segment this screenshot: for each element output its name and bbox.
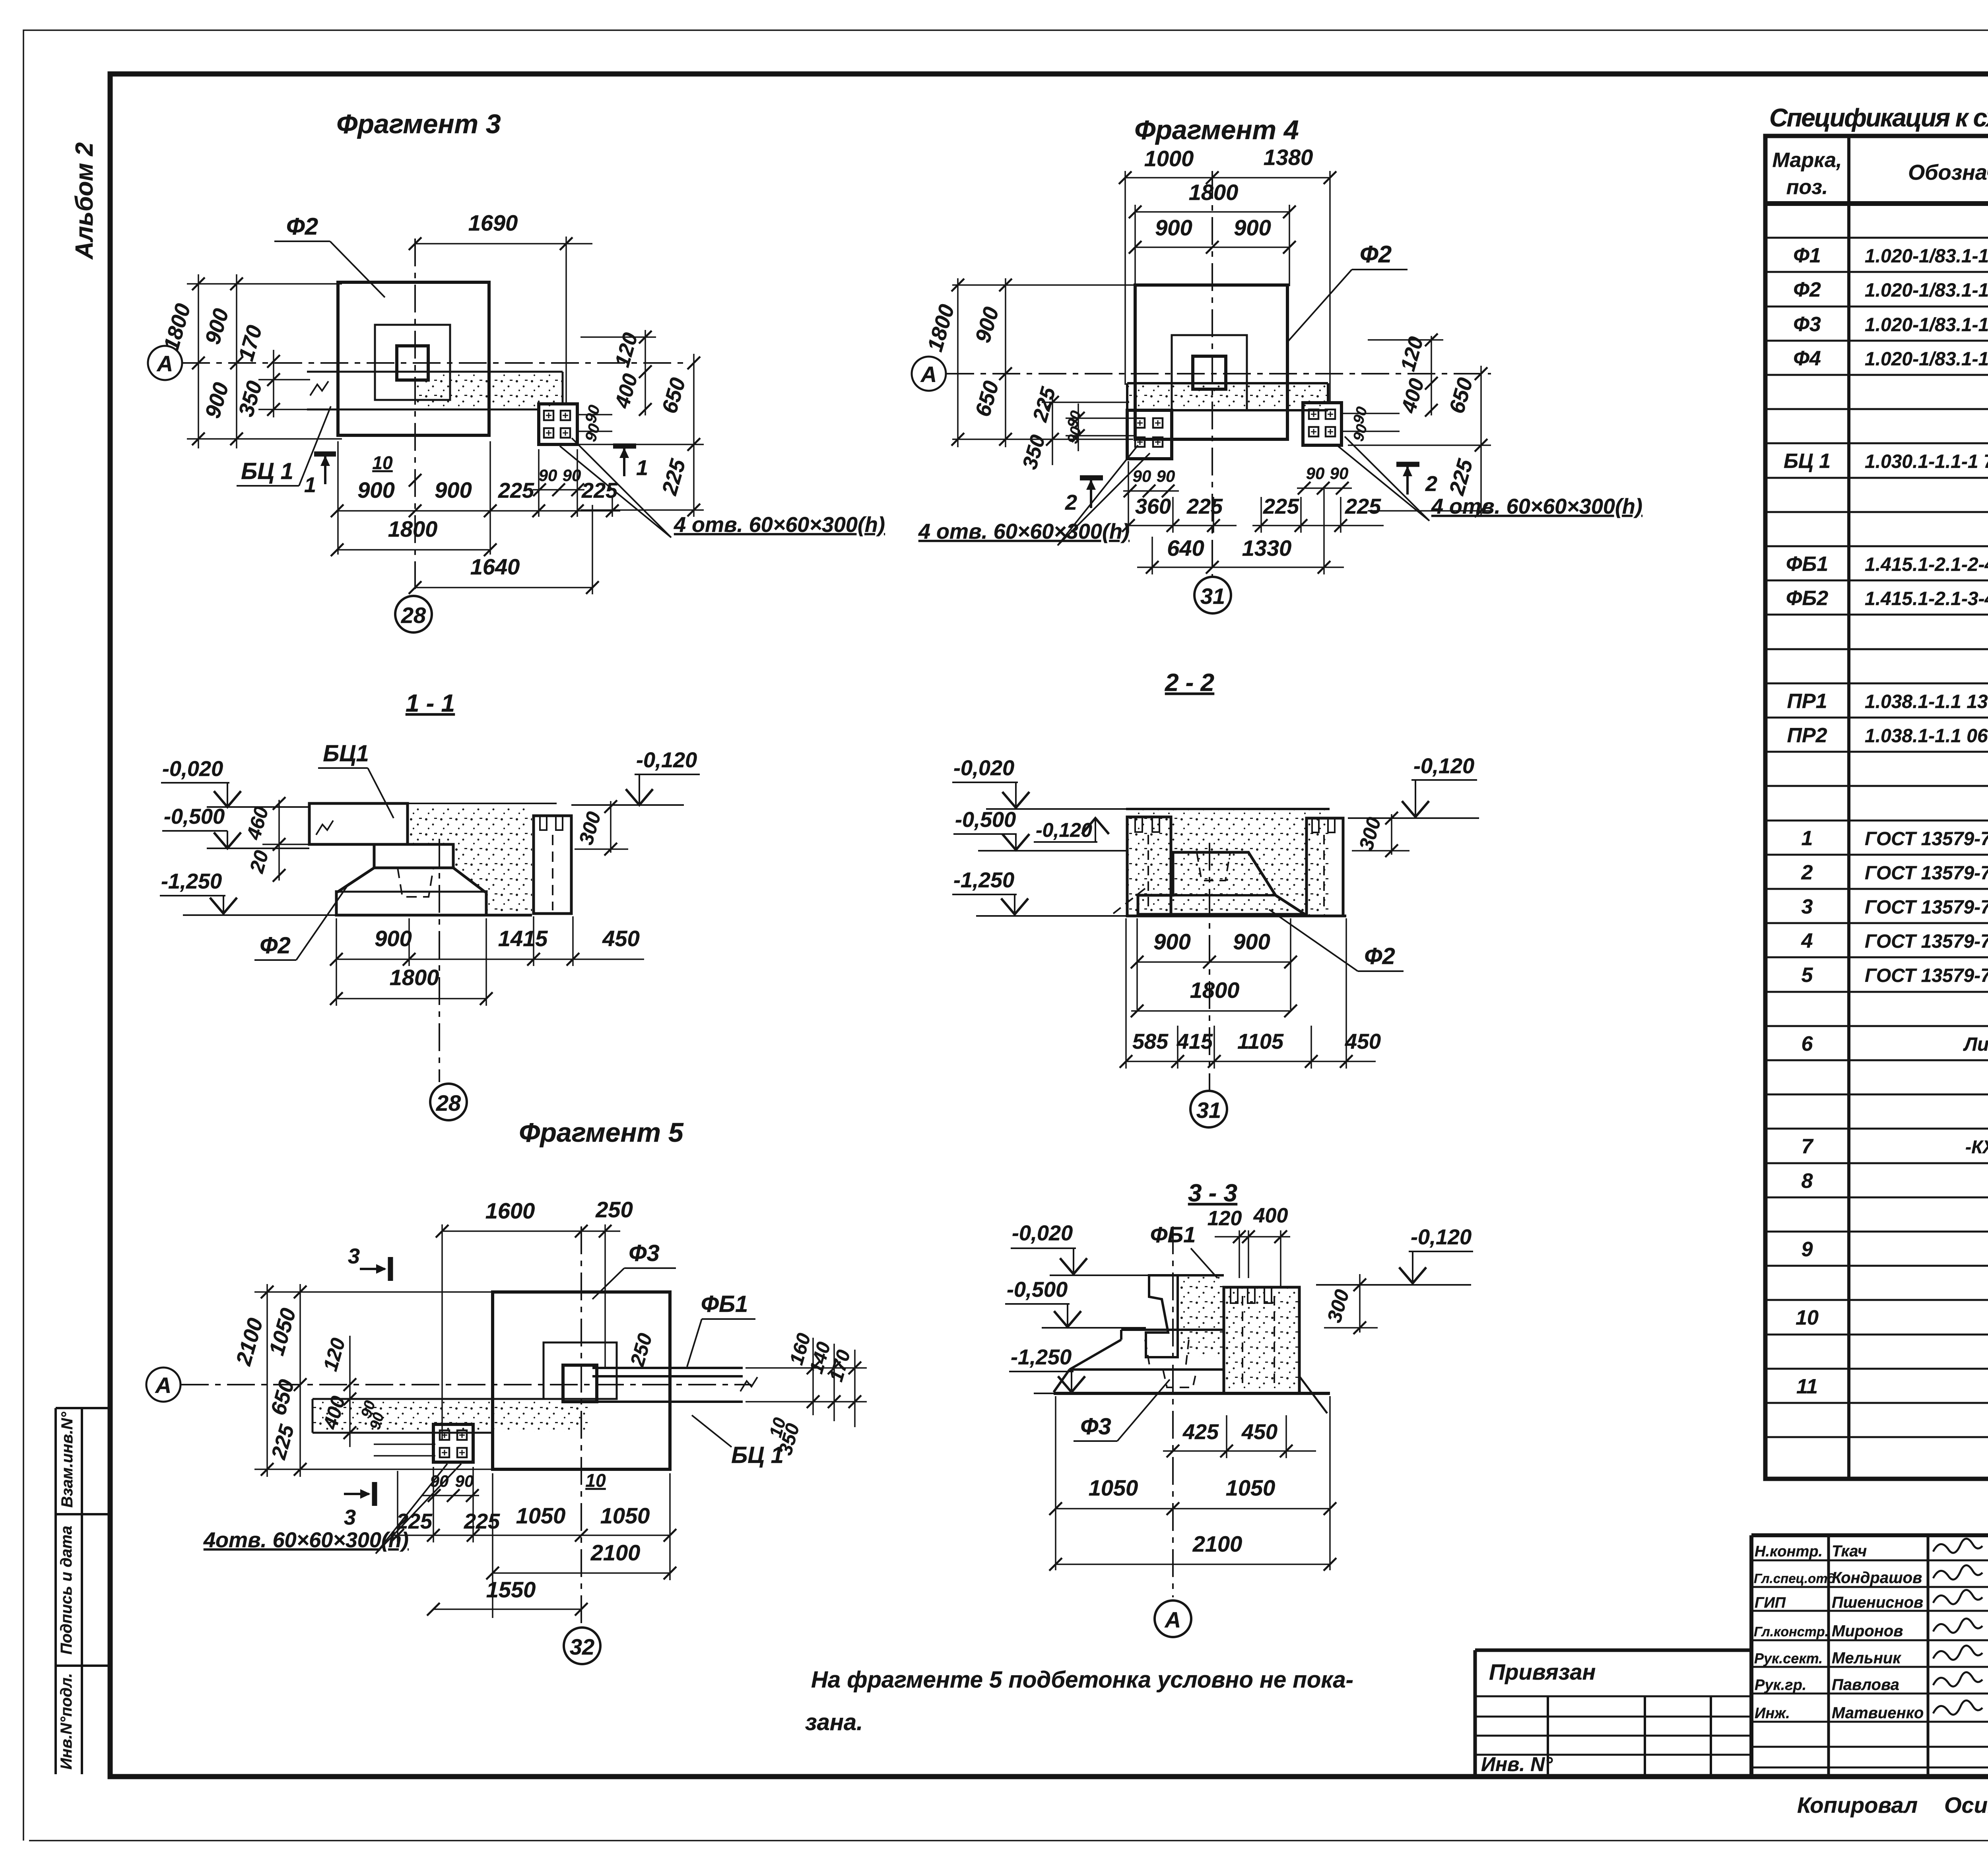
svg-text:А: А bbox=[155, 1373, 171, 1398]
fragment 3: bottom dim 1800 bbox=[337, 549, 490, 551]
section 1-1: stipple concrete fill bbox=[408, 807, 532, 913]
fragment 3: foundation Ф2 middle square bbox=[375, 325, 450, 400]
fragment 3: horizontal axis А bbox=[182, 362, 688, 364]
svg-text:3: 3 bbox=[348, 1244, 360, 1268]
svg-text:Ф4: Ф4 bbox=[1793, 347, 1821, 370]
svg-text:450: 450 bbox=[602, 926, 639, 951]
section 3-3: wall block ФБС bbox=[1224, 1287, 1299, 1393]
svg-text:ГОСТ 13579-78: ГОСТ 13579-78 bbox=[1865, 828, 1988, 850]
section 3-3: foundation Ф3 steps bbox=[1054, 1330, 1224, 1392]
fragment 3: column stub square bbox=[397, 346, 428, 380]
svg-text:Спецификация к схеме расположе: Спецификация к схеме расположения элемен… bbox=[1769, 103, 1988, 132]
svg-text:Рук.гр.: Рук.гр. bbox=[1755, 1677, 1806, 1694]
spec table column lines bbox=[1849, 136, 1988, 1479]
svg-text:А: А bbox=[920, 362, 937, 387]
svg-text:-1,250: -1,250 bbox=[953, 868, 1014, 892]
section 1-1: beam БЦ1 bbox=[309, 803, 408, 844]
svg-text:Подпись и дата: Подпись и дата bbox=[58, 1526, 75, 1655]
svg-text:Осина: Осина bbox=[1944, 1792, 1988, 1818]
svg-text:225: 225 bbox=[498, 479, 534, 502]
fragment 4: concrete stipple band bbox=[1128, 384, 1327, 409]
svg-text:2: 2 bbox=[1801, 861, 1813, 884]
svg-text:1.020-1/83.1-1 3.0.0-04: 1.020-1/83.1-1 3.0.0-04 bbox=[1865, 314, 1988, 336]
section 1-1: top ground line bbox=[309, 803, 557, 804]
section 3-3: beam ФБ1 tee profile bbox=[1146, 1275, 1178, 1357]
svg-text:ФБ2: ФБ2 bbox=[1786, 587, 1828, 610]
svg-text:90: 90 bbox=[563, 466, 581, 485]
svg-text:Лист 3: Лист 3 bbox=[1963, 1034, 1988, 1055]
svg-text:1105: 1105 bbox=[1237, 1030, 1284, 1053]
svg-text:10: 10 bbox=[1796, 1306, 1819, 1329]
svg-text:Марка,: Марка, bbox=[1773, 149, 1842, 172]
svg-text:90: 90 bbox=[1133, 467, 1151, 485]
section 3-3: hidden socket dashed bbox=[1163, 1370, 1197, 1387]
svg-text:10: 10 bbox=[372, 452, 393, 473]
section 3-3: dim 300 right bbox=[1324, 1274, 1378, 1333]
fragment 3: beam break mark bbox=[310, 381, 328, 396]
svg-text:БЦ 1: БЦ 1 bbox=[1784, 450, 1831, 473]
fragment 5: vertical axis 32 bbox=[580, 1226, 582, 1625]
svg-text:3: 3 bbox=[1802, 895, 1813, 918]
svg-text:4 отв. 60×60×300(h): 4 отв. 60×60×300(h) bbox=[918, 520, 1130, 543]
section 2-2: dim 300 right bbox=[1352, 814, 1409, 855]
svg-text:Ф2: Ф2 bbox=[260, 933, 291, 958]
svg-text:1800: 1800 bbox=[1189, 180, 1239, 205]
fragment 4: left dimension lines bbox=[952, 278, 1137, 465]
svg-text:4 отв. 60×60×300(h): 4 отв. 60×60×300(h) bbox=[674, 513, 885, 537]
svg-text:БЦ 1: БЦ 1 bbox=[241, 458, 293, 484]
svg-text:1600: 1600 bbox=[485, 1198, 535, 1223]
svg-text:225: 225 bbox=[464, 1509, 500, 1533]
svg-text:Ф3: Ф3 bbox=[1793, 313, 1821, 336]
section 3-3: block corner slant bbox=[1299, 1376, 1327, 1413]
svg-text:1.020-1/83.1-1 1.0.0: 1.020-1/83.1-1 1.0.0 bbox=[1865, 349, 1988, 370]
svg-text:5: 5 bbox=[1802, 964, 1813, 987]
svg-text:Фрагмент 4: Фрагмент 4 bbox=[1134, 115, 1299, 145]
section 2-2: bottom line bbox=[1126, 915, 1346, 918]
svg-text:2: 2 bbox=[1425, 472, 1437, 496]
section 1-1: hidden socket dashed bbox=[398, 868, 433, 897]
section 1-1: bottom line bbox=[336, 914, 532, 917]
svg-text:Ф2: Ф2 bbox=[286, 213, 318, 240]
svg-text:900: 900 bbox=[1153, 929, 1190, 954]
fragment 4: bottom dim 640 1330 bbox=[1137, 489, 1344, 574]
svg-text:Обозначение: Обозначение bbox=[1908, 161, 1988, 184]
svg-text:90: 90 bbox=[455, 1472, 474, 1490]
fragment 4: beam lines below band bbox=[1172, 410, 1287, 439]
fragment 5: horizontal axis А bbox=[181, 1384, 751, 1385]
fragment 4: right dimension lines bbox=[1343, 336, 1491, 517]
section 1-1: dim 300 bbox=[575, 801, 628, 853]
fragment 4: column stub square bbox=[1193, 356, 1226, 389]
fragment 5: foundation Ф3 outer square bbox=[493, 1292, 670, 1469]
svg-text:Павлова: Павлова bbox=[1832, 1676, 1899, 1694]
svg-text:Копировал: Копировал bbox=[1797, 1792, 1918, 1818]
svg-text:А: А bbox=[156, 351, 173, 376]
svg-text:1.020-1/83.1-1 2.00: 1.020-1/83.1-1 2.00 bbox=[1865, 246, 1988, 267]
svg-text:-0,020: -0,020 bbox=[162, 757, 223, 781]
fragment 3: concrete stipple band bbox=[416, 372, 563, 409]
svg-text:1800: 1800 bbox=[1190, 978, 1240, 1003]
fragment 4: right anchor block bbox=[1303, 403, 1342, 445]
svg-text:Кондрашов: Кондрашов bbox=[1832, 1569, 1922, 1587]
bottom thin sheet border bbox=[29, 1840, 1988, 1841]
fragment 5: concrete stipple band bbox=[313, 1400, 588, 1432]
fragment 4: axis circle 31 bbox=[1194, 577, 1231, 613]
svg-text:450: 450 bbox=[1241, 1420, 1277, 1444]
svg-text:1800: 1800 bbox=[390, 965, 439, 990]
fragment 3: left dimension lines bbox=[187, 274, 342, 448]
svg-text:31: 31 bbox=[1196, 1098, 1221, 1123]
section 2-2: hidden socket dashed bbox=[1197, 852, 1230, 881]
svg-text:1.020-1/83.1-1 2.0.0-04: 1.020-1/83.1-1 2.0.0-04 bbox=[1865, 280, 1988, 301]
svg-text:Фрагмент 5: Фрагмент 5 bbox=[519, 1117, 684, 1148]
section 2-2: left wall block bbox=[1127, 817, 1171, 916]
svg-text:2100: 2100 bbox=[590, 1540, 641, 1565]
title block: signature squiggles bbox=[1933, 1538, 1982, 1553]
svg-text:Ф1: Ф1 bbox=[1793, 244, 1821, 267]
svg-text:ГОСТ 13579-78: ГОСТ 13579-78 bbox=[1865, 863, 1988, 884]
section 1-1: right block ФБС bbox=[534, 816, 571, 914]
svg-text:425: 425 bbox=[1182, 1420, 1219, 1444]
svg-text:Привязан: Привязан bbox=[1489, 1659, 1596, 1684]
fragment 5: bottom dim 2100 bbox=[493, 1572, 670, 1574]
svg-text:10: 10 bbox=[585, 1470, 606, 1491]
svg-text:Гл.спец.отд: Гл.спец.отд bbox=[1754, 1571, 1836, 1586]
fragment 4: bottom dim 360 225 bbox=[1128, 461, 1237, 533]
svg-text:Ф3: Ф3 bbox=[1080, 1414, 1111, 1439]
svg-text:1.030.1-1.1-1 78-05: 1.030.1-1.1-1 78-05 bbox=[1865, 451, 1988, 472]
svg-text:-0,120: -0,120 bbox=[1413, 754, 1474, 778]
svg-text:1.038.1-1.1 130000-01: 1.038.1-1.1 130000-01 bbox=[1865, 691, 1988, 712]
svg-text:32: 32 bbox=[570, 1634, 594, 1659]
section 2-2: bottom dims 900 900 bbox=[1137, 918, 1291, 1010]
svg-text:1330: 1330 bbox=[1242, 535, 1292, 561]
svg-text:90: 90 bbox=[1306, 464, 1325, 483]
section 2-2: axis and circle 31 bbox=[1209, 843, 1210, 1090]
fragment 4: horizontal axis А bbox=[946, 373, 1491, 374]
svg-text:1415: 1415 bbox=[498, 926, 548, 951]
svg-text:250: 250 bbox=[595, 1197, 633, 1222]
section 3-3: beam foot block bbox=[1145, 1333, 1147, 1357]
svg-text:-КЖ2и- 00.00.41: -КЖ2и- 00.00.41 bbox=[1965, 1137, 1988, 1157]
svg-text:3: 3 bbox=[344, 1505, 356, 1529]
fragment 3: anchor block bbox=[539, 404, 577, 444]
fragment 5: band outlines bbox=[313, 1399, 588, 1433]
svg-text:-0,500: -0,500 bbox=[955, 808, 1016, 832]
svg-text:11: 11 bbox=[1796, 1375, 1818, 1398]
svg-text:9: 9 bbox=[1802, 1238, 1813, 1261]
fragment 4: dim 900 900 bbox=[1135, 246, 1289, 248]
svg-text:7: 7 bbox=[1802, 1135, 1814, 1158]
svg-text:900: 900 bbox=[357, 477, 394, 502]
svg-text:1: 1 bbox=[304, 473, 316, 497]
svg-text:1.415.1-2.1-3-45: 1.415.1-2.1-3-45 bbox=[1865, 588, 1988, 609]
svg-text:ПР1: ПР1 bbox=[1787, 690, 1827, 713]
svg-text:-0,020: -0,020 bbox=[953, 756, 1014, 780]
svg-text:585: 585 bbox=[1132, 1030, 1169, 1053]
svg-text:2100: 2100 bbox=[1192, 1531, 1242, 1556]
fragment 3: vertical axis 28 bbox=[414, 239, 416, 595]
fragment 3: axis circle А bbox=[148, 346, 182, 380]
svg-text:1050: 1050 bbox=[1089, 1475, 1138, 1500]
svg-text:900: 900 bbox=[375, 926, 412, 951]
svg-text:3 - 3: 3 - 3 bbox=[1188, 1179, 1237, 1207]
section 3-3: axis and circle А bbox=[1172, 1226, 1174, 1597]
svg-text:ГОСТ 13579-78: ГОСТ 13579-78 bbox=[1865, 931, 1988, 952]
svg-text:Фрагмент 3: Фрагмент 3 bbox=[336, 109, 501, 139]
fragment 4: top dim 1000 1380 bbox=[1125, 171, 1330, 402]
svg-text:ПР2: ПР2 bbox=[1787, 724, 1827, 747]
fragment 5: axis circle 32 bbox=[564, 1628, 600, 1664]
svg-text:1690: 1690 bbox=[468, 210, 518, 235]
fragment 4: left anchor block bbox=[1127, 410, 1172, 459]
fragment 5: bottom dim 1550 bbox=[433, 1608, 581, 1610]
svg-text:Альбом 2: Альбом 2 bbox=[71, 142, 98, 260]
svg-text:Инв.N°подл.: Инв.N°подл. bbox=[58, 1673, 75, 1770]
fragment 4: band outlines bbox=[1127, 383, 1328, 410]
section 3-3: bottom dim 2100 bbox=[1056, 1564, 1330, 1565]
svg-text:1: 1 bbox=[636, 456, 648, 480]
svg-text:640: 640 bbox=[1167, 535, 1204, 561]
left stamp column boxes bbox=[56, 1408, 110, 1774]
svg-text:8: 8 bbox=[1802, 1170, 1813, 1193]
section 2-2: foundation Ф2 white shape bbox=[1138, 852, 1305, 914]
section 2-2: top line bbox=[1126, 808, 1330, 810]
svg-text:900: 900 bbox=[1155, 215, 1192, 240]
svg-text:1.415.1-2.1-2-43: 1.415.1-2.1-2-43 bbox=[1865, 554, 1988, 575]
svg-text:ГОСТ 13579-78: ГОСТ 13579-78 bbox=[1865, 965, 1988, 986]
svg-text:90: 90 bbox=[1157, 467, 1175, 485]
svg-text:1380: 1380 bbox=[1264, 145, 1313, 170]
svg-text:28: 28 bbox=[401, 603, 426, 628]
svg-text:225: 225 bbox=[1345, 495, 1381, 518]
svg-text:1050: 1050 bbox=[516, 1503, 566, 1528]
fragment 5: top dim 1600 250 bbox=[442, 1224, 620, 1439]
fragment 5: foundation Ф3 middle rect bbox=[544, 1342, 617, 1399]
svg-text:ГИП: ГИП bbox=[1755, 1595, 1786, 1611]
title block: signature table row lines bbox=[1751, 1560, 1988, 1767]
fragment 4: dim 1800 bbox=[1135, 205, 1289, 286]
svg-text:зана.: зана. bbox=[805, 1709, 863, 1735]
section 1-1: dim 460/20 bbox=[262, 800, 314, 881]
svg-text:28: 28 bbox=[436, 1090, 461, 1115]
fragment 4: section mark 2 left bbox=[1080, 475, 1103, 481]
fragment 5: anchor block bbox=[433, 1424, 473, 1462]
section 2-2: right wall block bbox=[1307, 818, 1343, 916]
fragment 3: bottom dim row 900 900 225 225 bbox=[337, 441, 620, 555]
fragment 5: bottom dim row 225 225 1050 1050 bbox=[394, 1467, 670, 1618]
svg-text:Рук.сект.: Рук.сект. bbox=[1754, 1650, 1823, 1666]
svg-text:А: А bbox=[1164, 1607, 1181, 1632]
fragment 5: beam ФБ1 bbox=[592, 1368, 743, 1402]
section 3-3: foundation bottom bbox=[1054, 1392, 1330, 1395]
svg-text:Взам.инв.N°: Взам.инв.N° bbox=[58, 1412, 76, 1508]
fragment 3: right dimension lines bbox=[569, 330, 704, 517]
svg-text:900: 900 bbox=[435, 477, 472, 502]
svg-text:1640: 1640 bbox=[470, 554, 520, 579]
svg-text:БЦ1: БЦ1 bbox=[323, 741, 369, 766]
fragment 5: axis circle А bbox=[146, 1368, 181, 1402]
svg-text:6: 6 bbox=[1802, 1032, 1813, 1055]
svg-text:Ф2: Ф2 bbox=[1793, 278, 1821, 301]
svg-text:4отв. 60×60×300(h): 4отв. 60×60×300(h) bbox=[203, 1528, 409, 1552]
svg-text:900: 900 bbox=[1234, 215, 1271, 240]
svg-text:Матвиенко: Матвиенко bbox=[1832, 1704, 1924, 1722]
svg-text:4 отв. 60×60×300(h): 4 отв. 60×60×300(h) bbox=[1431, 495, 1642, 518]
svg-text:360: 360 bbox=[1135, 495, 1171, 518]
svg-text:225: 225 bbox=[1186, 495, 1223, 518]
svg-text:90: 90 bbox=[539, 466, 557, 485]
fragment 3: foundation Ф2 outer square bbox=[338, 282, 489, 435]
svg-text:90: 90 bbox=[1330, 464, 1349, 483]
section 3-3: bottom dims 425 450 bbox=[1163, 1415, 1316, 1458]
svg-text:Ф3: Ф3 bbox=[629, 1240, 660, 1266]
svg-text:Пшениснов: Пшениснов bbox=[1832, 1594, 1923, 1611]
svg-text:-0,020: -0,020 bbox=[1012, 1221, 1073, 1245]
fragment 4: foundation Ф2 outer square bbox=[1135, 285, 1287, 439]
svg-text:Мельник: Мельник bbox=[1832, 1649, 1901, 1667]
section 2-2: stipple fill full area bbox=[1128, 810, 1328, 915]
svg-text:-1,250: -1,250 bbox=[161, 869, 222, 893]
svg-text:Ф2: Ф2 bbox=[1360, 241, 1392, 268]
svg-text:На фрагменте 5 подбетонка у: На фрагменте 5 подбетонка условно не пок… bbox=[811, 1667, 1353, 1693]
svg-text:415: 415 bbox=[1176, 1030, 1213, 1053]
svg-text:1800: 1800 bbox=[388, 516, 438, 541]
section 1-1: bottom dim 1800 bbox=[336, 918, 486, 1006]
svg-text:225: 225 bbox=[581, 479, 618, 502]
title block: left attachment box bbox=[1475, 1650, 1751, 1774]
svg-text:1050: 1050 bbox=[1226, 1475, 1276, 1500]
svg-text:Миронов: Миронов bbox=[1832, 1622, 1903, 1640]
spec table header bottom line bbox=[1765, 201, 1988, 206]
fragment 3: top dim 1690 bbox=[415, 237, 592, 404]
svg-text:-0,120: -0,120 bbox=[636, 748, 697, 772]
fragment 4: bottom dim 225 225 right bbox=[1252, 497, 1384, 533]
section 1-1: axis circle 28 bbox=[439, 839, 440, 1082]
spec table row lines bbox=[1765, 238, 1988, 1437]
section 3-3: bottom dims 1050 1050 bbox=[1056, 1396, 1330, 1570]
fragment 3: bottom dim 1640 bbox=[415, 505, 592, 594]
svg-text:1050: 1050 bbox=[600, 1503, 650, 1528]
section 2-2: bottom dims 585 415 1105 450 bbox=[1126, 918, 1376, 1069]
svg-text:Инв. N°: Инв. N° bbox=[1481, 1753, 1553, 1775]
svg-text:ФБ1: ФБ1 bbox=[701, 1291, 748, 1317]
fragment 5: left dimension lines bbox=[254, 1284, 495, 1477]
svg-text:1 - 1: 1 - 1 bbox=[406, 690, 455, 717]
title block: signature table frame bbox=[1751, 1535, 1988, 1774]
svg-text:Инж.: Инж. bbox=[1755, 1705, 1790, 1722]
svg-text:2: 2 bbox=[1065, 491, 1077, 514]
svg-text:ФБ1: ФБ1 bbox=[1786, 553, 1828, 576]
svg-text:225: 225 bbox=[1263, 495, 1299, 518]
svg-text:-0,500: -0,500 bbox=[1007, 1278, 1068, 1302]
fragment 3: section mark 1 left bbox=[314, 452, 336, 457]
fragment 4: vertical axis 31 bbox=[1211, 171, 1213, 577]
fragment 3: beam БЦ1 band lines bbox=[307, 372, 563, 409]
svg-text:поз.: поз. bbox=[1786, 176, 1828, 199]
section 3-3: stipple fills bbox=[1180, 1277, 1223, 1356]
fragment 3: section mark 1 right bbox=[613, 444, 636, 449]
svg-text:-1,250: -1,250 bbox=[1011, 1345, 1072, 1369]
fragment 3: axis circle 28 bbox=[395, 596, 432, 632]
section 1-1: foundation Ф2 pedestal bbox=[336, 844, 486, 915]
svg-text:4: 4 bbox=[1801, 929, 1813, 952]
fragment 4: axis circle А bbox=[912, 357, 946, 391]
svg-text:Н.контр.: Н.контр. bbox=[1755, 1543, 1823, 1560]
spec table outer frame bbox=[1765, 136, 1988, 1479]
svg-text:2 - 2: 2 - 2 bbox=[1165, 669, 1214, 696]
svg-text:120: 120 bbox=[1208, 1207, 1242, 1230]
fragment 4: foundation Ф2 middle square bbox=[1172, 335, 1247, 410]
svg-text:450: 450 bbox=[1345, 1030, 1381, 1053]
svg-text:-0,500: -0,500 bbox=[164, 805, 225, 828]
section 1-1: bottom dims 900 1415 450 bbox=[336, 916, 644, 1006]
svg-text:БЦ 1: БЦ 1 bbox=[731, 1442, 784, 1468]
fragment 5: column stub square bbox=[563, 1365, 597, 1402]
svg-text:1550: 1550 bbox=[486, 1577, 536, 1602]
svg-text:1.038.1-1.1 060000-05: 1.038.1-1.1 060000-05 bbox=[1865, 726, 1988, 747]
section 3-3: dim 120 400 top bbox=[1215, 1230, 1290, 1288]
svg-text:Ф2: Ф2 bbox=[1364, 943, 1395, 969]
svg-text:1000: 1000 bbox=[1144, 146, 1194, 171]
svg-text:-0,120: -0,120 bbox=[1411, 1225, 1472, 1249]
svg-text:ГОСТ 13579-78: ГОСТ 13579-78 bbox=[1865, 897, 1988, 918]
svg-text:400: 400 bbox=[1253, 1204, 1288, 1227]
svg-text:Ткач: Ткач bbox=[1832, 1542, 1867, 1560]
svg-text:31: 31 bbox=[1200, 584, 1225, 609]
section 2-2: bottom dim 1800 bbox=[1131, 1010, 1291, 1012]
fragment 4: section mark 2 right bbox=[1396, 462, 1419, 467]
svg-text:Гл.констр.: Гл.констр. bbox=[1754, 1624, 1829, 1639]
svg-text:900: 900 bbox=[1233, 929, 1270, 954]
svg-text:1: 1 bbox=[1802, 827, 1813, 850]
fragment 5: right dimension lines bbox=[745, 1338, 867, 1427]
